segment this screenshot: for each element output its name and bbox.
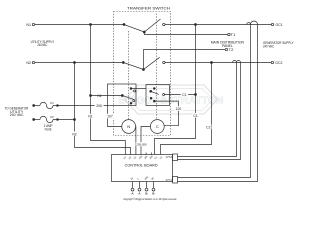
label 206 (95, 103, 104, 108)
copyright line (123, 198, 177, 201)
junction F2 out (57, 119, 59, 121)
svg-text:C1: C1 (193, 114, 197, 118)
svg-text:Copyright © Briggs & Stratton,: Copyright © Briggs & Stratton, LLC. All … (123, 198, 177, 201)
switch SW1 pivot (143, 31, 145, 33)
terminal N1 (32, 23, 34, 25)
svg-text:240 VAC: 240 VAC (10, 113, 25, 117)
svg-text:N2: N2 (26, 61, 31, 65)
terminal F1 start (33, 105, 35, 107)
junction N2 drop (74, 62, 76, 64)
wire 107 relay to coil (108, 106, 122, 127)
relay K1 upper contact (130, 88, 136, 92)
terminal F2 start (33, 119, 35, 121)
board bottom stub 1 (131, 182, 134, 192)
wire F2 to N2 drop (53, 119, 75, 121)
svg-text:BRIGGS&STRATTON: BRIGGS&STRATTON (118, 95, 223, 107)
switch SW1 blade (124, 19, 161, 32)
coil C (150, 120, 164, 134)
svg-text:C: C (156, 124, 159, 129)
svg-text:T2: T2 (229, 48, 234, 52)
wire N2 horizontal (35, 62, 124, 64)
CT1 tab (166, 177, 178, 184)
wire C1 vertical (155, 25, 196, 155)
switch SW2 contact (163, 61, 165, 63)
wire relay K1 to K2 (131, 88, 146, 90)
terminal N2 (32, 61, 34, 63)
fuse F2 (35, 116, 53, 123)
relay K1 box (108, 84, 137, 106)
relay K1 lower contact (130, 100, 135, 105)
junction N1 relay tap (90, 95, 92, 97)
wire coil N to board (135, 127, 137, 155)
mechanical link dashed right (156, 14, 158, 120)
wire 120 relay to coil C (154, 101, 178, 126)
label C2 on vertical (205, 125, 212, 130)
junction F1 out (57, 105, 59, 107)
svg-text:205-206: 205-206 (136, 142, 147, 146)
label control board (125, 162, 158, 167)
svg-text:GC1: GC1 (276, 23, 283, 27)
label TRANSFER SWITCH (127, 5, 170, 10)
mechanical link dashed left (128, 31, 130, 120)
relay K2 upper contact (153, 88, 155, 90)
wire coil C to board (141, 127, 150, 155)
board top pin stubs (146, 153, 151, 155)
svg-text:240VAC: 240VAC (37, 43, 48, 47)
wire CT2 lead a (178, 63, 237, 157)
wire T1 from SW1 pivot (144, 32, 227, 35)
wire C2 vertical (161, 63, 212, 155)
junction C2 on GC2 (211, 62, 213, 64)
svg-text:CONTROL BOARD: CONTROL BOARD (125, 162, 158, 167)
switch SW2 pole (122, 62, 124, 64)
svg-text:C2: C2 (206, 125, 210, 129)
switch SW1 contact (163, 23, 165, 25)
relay K2 arm (151, 91, 159, 94)
junction N1 drop (90, 24, 92, 26)
CT on GC2 (233, 61, 241, 63)
wire N1 horizontal (35, 24, 124, 26)
label F1 (50, 101, 54, 105)
svg-text:PANEL: PANEL (222, 44, 233, 48)
svg-text:120: 120 (176, 107, 182, 111)
label generator supply (263, 41, 294, 49)
label 205-206 (136, 142, 148, 146)
relay K1 pole (121, 95, 123, 97)
label GC2 (275, 61, 282, 65)
board bottom stub 3 (145, 182, 148, 192)
terminal T1 (228, 33, 230, 35)
CT2 tab (166, 154, 178, 161)
svg-text:GC2: GC2 (275, 61, 282, 65)
CT on GC1 (247, 21, 258, 24)
wire 206 to relay (53, 105, 108, 107)
board top pin labels rotated (123, 155, 164, 160)
wire relay K2 to C1 (165, 94, 195, 96)
relay K2 output contact (163, 94, 165, 96)
label N1 (26, 23, 31, 27)
switch SW1 pole (123, 24, 125, 26)
label to generator utility (5, 107, 29, 118)
label N1 on vertical (87, 114, 94, 119)
svg-text:107: 107 (107, 115, 113, 119)
relay K2 lower contacts (150, 97, 155, 102)
fuse F1 (35, 102, 53, 109)
switch SW2 pivot (143, 69, 145, 71)
label C1 on vertical (192, 113, 199, 118)
svg-text:T1: T1 (231, 33, 236, 37)
wire T2 from SW2 pivot (144, 50, 225, 70)
wire GC2 (165, 62, 271, 64)
label N2 (26, 61, 31, 65)
junction F2 N2 (74, 119, 76, 121)
board bottom stub 4 (152, 182, 155, 192)
relay K1 arm (122, 96, 133, 100)
svg-text:TRANSFER SWITCH: TRANSFER SWITCH (127, 5, 170, 10)
label 120 on vertical (174, 106, 182, 111)
svg-text:C1: C1 (182, 93, 186, 97)
svg-text:240 VAC: 240 VAC (263, 44, 274, 48)
wire N1 into relay (92, 95, 122, 97)
relay K2 pole (150, 90, 152, 92)
label 2 amp fuse (44, 124, 53, 131)
label 107 (106, 114, 114, 119)
label F2 (50, 115, 54, 119)
label C1 inline (181, 92, 188, 97)
wire CT1 lead b (178, 25, 258, 182)
wire CT2 lead b (178, 63, 241, 160)
svg-text:N2: N2 (72, 132, 76, 136)
svg-text:N1: N1 (97, 94, 101, 98)
svg-text:FUSE: FUSE (45, 127, 52, 131)
label T1 (231, 33, 236, 37)
control board box (112, 155, 173, 182)
wire GC1 (165, 24, 271, 26)
label N2 on vertical (71, 132, 78, 137)
junction C1 on GC1 (195, 24, 197, 26)
board bottom stub 2 (138, 182, 141, 192)
label main distribution panel (211, 40, 245, 48)
svg-text:N: N (127, 124, 130, 129)
switch SW2 blade (123, 57, 159, 69)
svg-text:CT1: CT1 (166, 178, 173, 182)
label utility supply (31, 40, 55, 47)
svg-text:N1: N1 (88, 115, 92, 119)
watermark Briggs & Stratton logo (118, 85, 223, 114)
junction relay to C1 (195, 94, 197, 96)
svg-text:N1: N1 (26, 23, 31, 27)
svg-text:F2: F2 (50, 115, 54, 119)
svg-text:CT2: CT2 (166, 155, 173, 159)
wire N2 vertical to board (75, 63, 131, 155)
svg-text:206: 206 (96, 104, 102, 108)
board bottom pin labels rotated (130, 175, 155, 180)
transfer switch dashed enclosure (114, 12, 171, 136)
terminal T2 (225, 48, 227, 50)
label GC1 (276, 23, 283, 27)
bottom stub letters (131, 192, 155, 196)
wire CT1 lead a (178, 25, 251, 178)
wire N1 vertical to relay and board (91, 25, 126, 155)
svg-text:F1: F1 (50, 101, 54, 105)
terminal GC1 (271, 23, 273, 25)
label N1 relay input (96, 93, 103, 98)
label T2 (229, 48, 234, 52)
terminal GC2 (271, 61, 273, 63)
coil N (122, 120, 136, 134)
relay K2 box (146, 85, 170, 106)
